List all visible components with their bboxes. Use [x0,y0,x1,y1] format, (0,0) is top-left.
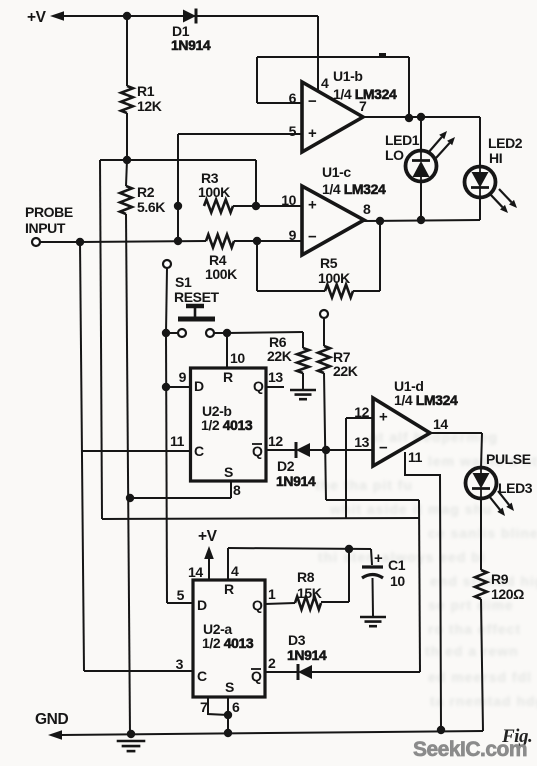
svg-text:13: 13 [268,369,283,385]
wire R5 left lead [257,290,325,292]
svg-text:22K: 22K [267,348,292,364]
wire probe to R4 [80,241,206,242]
svg-text:11: 11 [408,449,423,465]
wire U1-d pin12 lead [346,417,373,419]
wire divider long left drop [100,160,102,519]
node LED1 top junction [417,113,425,121]
node pin9 junction [162,383,170,391]
node R2 ground junction [127,730,135,738]
svg-text:C1: C1 [388,557,406,573]
label D3 [287,632,327,663]
svg-text:+: + [308,125,317,142]
node C1 top junction [345,545,353,553]
svg-text:12: 12 [268,433,283,449]
svg-text:U1-b: U1-b [333,68,363,84]
label U1-c pins [281,192,371,243]
svg-text:R: R [223,369,233,385]
label U1-c [322,164,386,197]
svg-text:th ed a rewn: th ed a rewn [425,643,519,659]
svg-text:1N914: 1N914 [276,473,316,489]
svg-text:9: 9 [289,227,297,243]
svg-text:R9: R9 [491,571,509,587]
svg-text:8: 8 [233,482,241,498]
LED LED1 [406,151,437,182]
svg-text:RESET: RESET [174,289,220,305]
svg-text:+V: +V [27,9,47,26]
label pin6 [232,699,240,715]
LED1 light arrows [428,131,455,158]
label D1 [171,23,211,53]
wire C1 bottom lead [372,578,375,616]
svg-text:D: D [194,378,204,394]
svg-text:S: S [225,679,234,695]
wire +V rail [63,15,318,17]
wire ground rail [61,731,483,735]
+V supply label [27,9,47,26]
svg-text:1/2 4013: 1/2 4013 [201,417,253,433]
wire U1-b pin4 supply drop [317,16,319,92]
svg-text:R2: R2 [137,184,155,200]
svg-text:LED1: LED1 [385,132,420,148]
label R3 [198,170,230,200]
resistor R3 [204,200,233,213]
wire U1-b feedback top [257,56,409,58]
svg-text:Q: Q [253,378,264,394]
svg-text:R: R [224,581,234,597]
label R5 [318,255,350,286]
svg-text:−: − [308,93,317,110]
node U2-a ground junction [224,729,232,737]
svg-text:9: 9 [179,369,187,385]
faint scan bleed-through (decorative) [315,429,537,709]
svg-text:Q: Q [252,443,263,459]
svg-text:ed meersd fdl: ed meersd fdl [428,669,532,685]
svg-text:100K: 100K [205,266,237,282]
svg-text:15K: 15K [297,585,322,601]
wire R5 left drop [256,241,258,291]
svg-text:10: 10 [281,192,296,208]
wire S1 right contact lead [214,332,227,334]
wire U2-b pin10 R [226,333,228,368]
wire R7 top lead [323,318,325,346]
svg-text:4: 4 [321,75,329,91]
wire U2-a pin6 [227,697,229,733]
terminal S1 top [163,260,171,268]
terminal probe input [32,238,40,246]
IC U2-a box [193,580,265,697]
wire U2-b pin13 stub [266,386,284,388]
wire R8 right lead [321,601,349,603]
wire S1 net down to U2-a pin5 [166,333,167,603]
label pin4 [231,563,239,579]
label pin2 [268,655,276,671]
node probe junction [76,238,84,246]
wire U1-b output [363,116,480,118]
+V rail arrowhead [50,11,64,21]
LED LED2 [465,167,496,198]
label PROBE INPUT [25,204,73,236]
wire R1 top lead [126,16,128,86]
wire S1 to R6 [227,332,303,333]
ground main symbol [117,741,146,751]
label U2-a name [202,621,254,651]
wire U2-b pin12 Qbar lead [266,449,296,451]
svg-text:14: 14 [433,416,448,432]
wire LED1 top lead [420,117,422,150]
wire D3 to U-turn wire [312,671,420,673]
label +V U2-a [198,528,218,545]
wire LED1 bottom lead [420,182,422,220]
label LED1 LO [385,132,420,163]
wire U2-a pin5 D [168,602,193,604]
svg-text:LED3: LED3 [498,480,533,496]
svg-text:U1-c: U1-c [322,164,351,180]
label S1 RESET [174,274,220,305]
wire R6 top lead [302,332,304,348]
svg-text:S: S [224,464,233,480]
switch S1 button cap [186,306,204,317]
node R3 left junction [174,202,182,210]
svg-text:12K: 12K [137,98,162,114]
label U1-b [333,68,397,102]
node pin11 ground junction [437,726,445,734]
label U2-a inside [197,581,263,695]
svg-text:−: − [308,228,317,245]
svg-text:LO: LO [385,147,404,163]
wire long horizontal to U1-d [102,518,419,519]
label pin13 [268,369,283,385]
svg-text:14: 14 [188,564,203,580]
LED3 light arrows [489,491,514,516]
terminal R7 top [320,310,328,318]
wire probe to clock inputs [80,242,84,671]
svg-text:−: − [379,440,388,457]
label C1 plus [374,550,383,567]
wire R5 to output [379,221,381,291]
wire U2-b pin11 C [82,450,190,452]
artifact tick [379,53,386,58]
wire U2-a pin2 Qbar lead [265,671,298,673]
wire divider node horizontal [100,159,256,161]
label U2-b name [201,403,253,433]
svg-text:11: 11 [170,433,185,449]
svg-text:100K: 100K [318,270,350,286]
svg-text:4: 4 [231,563,239,579]
wire U1-d pin11 [405,452,441,729]
svg-text:R5: R5 [320,255,338,271]
wire R2 bottom to ground rail [126,214,130,734]
wire R3 right to U1-c pin10 [233,205,302,207]
wire U1-d output [430,432,482,434]
svg-text:6: 6 [232,699,240,715]
wire U2-a pin7 [208,697,228,715]
wire pin12 drop [345,418,347,518]
wire LED2 bottom lead [479,198,481,220]
label GND [35,711,68,728]
wire U2-a pin4 up [227,548,229,580]
svg-text:10: 10 [230,350,245,366]
wire LED3 bottom lead [480,499,482,570]
resistor R7 [318,346,330,373]
diode D2 [296,442,310,458]
wire R1 bottom lead [126,113,128,160]
node R1-R2 junction [123,156,131,164]
wire R8 to C1 rail [348,549,350,602]
label pin12 [268,433,283,449]
ground C1 [360,617,386,626]
svg-text:7: 7 [200,699,208,715]
svg-text:PROBE: PROBE [25,204,73,220]
svg-text:SeekIC.com: SeekIC.com [413,738,527,761]
wire U2-a pin14 supply [208,558,210,580]
wire LED3 top lead [481,433,482,468]
wire R7 bottom horizontal [326,499,419,501]
wire U1-c output [364,220,480,221]
wire LED2 top drop [479,117,481,167]
svg-text:1N914: 1N914 [287,647,327,663]
node R4 left / pin5 drop junction [174,237,182,245]
wire R5 right lead [353,290,380,292]
resistor R8 [295,597,321,610]
svg-text:+: + [379,408,388,425]
diode D1 [183,9,196,24]
wire U2-b pin8 to ground wire [130,497,231,499]
node LED1 bottom junction [417,216,425,224]
wire U1-b feedback right [408,57,410,118]
svg-text:R1: R1 [137,83,155,99]
terminal S1 left contact [178,329,186,337]
label pin8 [233,482,241,498]
switch S1 actuator bar [178,317,215,322]
svg-text:ro tha effect: ro tha effect [428,621,521,637]
svg-text:D3: D3 [288,632,306,648]
svg-text:100K: 100K [198,184,230,200]
node S1 right junction [223,329,231,337]
label pin5 [177,587,185,603]
svg-text:22K: 22K [333,363,358,379]
node D2 junction [322,446,330,454]
op-amp U1-b [302,82,363,152]
svg-text:3: 3 [176,656,184,672]
label pin9 [179,369,187,385]
wire U2-a pin1 Q lead [265,603,295,604]
resistor R5 [325,285,353,298]
svg-text:5: 5 [289,123,297,139]
svg-text:1/4 LM324: 1/4 LM324 [333,86,397,102]
label U1-b pins [289,75,367,139]
svg-text:2: 2 [268,655,276,671]
wire C1 top lead [371,549,372,565]
wire R7 bottom lead [324,373,326,500]
resistor R1 [121,86,133,113]
svg-text:Q: Q [252,597,263,613]
+V arrow U2-a [204,546,214,559]
label pin11 [170,433,185,449]
wire U2-a pin5 lead [167,602,193,604]
label R7 [333,349,358,379]
caption Fig [501,726,532,747]
svg-text:1/2 4013: 1/2 4013 [202,635,254,651]
node pin7-6 junction [224,711,232,719]
svg-text:1N914: 1N914 [171,37,211,53]
svg-text:PULSE: PULSE [486,451,531,467]
svg-text:1/4 LM324: 1/4 LM324 [322,181,386,197]
svg-text:1: 1 [268,586,276,602]
svg-text:C: C [197,668,207,684]
diode D3 [298,664,312,680]
watermark SeekIC.com [413,738,527,761]
resistor R9 [475,570,487,599]
label pin7 [200,699,208,715]
wire R4 to U1-c pin9 [234,240,302,242]
node S1 left junction [162,329,170,337]
label R8 [297,569,322,601]
label R1 [137,83,162,114]
svg-text:120Ω: 120Ω [491,586,524,602]
ground R6 [290,390,316,399]
svg-text:1/4 LM324: 1/4 LM324 [394,392,458,408]
svg-text:HI: HI [489,150,502,166]
label U2-b inside [194,369,264,480]
svg-text:+V: +V [198,528,218,545]
wire U1-b pin6 lead [257,102,302,104]
svg-text:S1: S1 [175,274,192,290]
svg-text:6: 6 [289,90,297,106]
svg-text:Q: Q [251,668,262,684]
node U1-c output junction [376,217,384,225]
node feedback-output junction [405,114,413,122]
svg-text:+: + [308,197,317,214]
label LED3 [498,480,533,496]
wire S1 top drop [166,268,167,333]
capacitor C1 [362,567,383,578]
resistor R6 [297,348,309,373]
node R5 feedback junction [253,237,261,245]
label D2 [276,458,316,489]
node +V / R1 junction [123,12,131,20]
wire U2-b pin9 D [166,386,190,388]
svg-text:10: 10 [390,573,405,589]
label pin3 [176,656,184,672]
wire U1-b pin5 lead [178,133,302,135]
op-amp U1-d [373,398,430,466]
label PULSE [486,451,531,467]
svg-text:ce sanlis bline: ce sanlis bline [428,525,537,541]
svg-text:whit aside it mag shu: whit aside it mag shu [329,501,493,517]
label R9 [491,571,524,602]
wire divider to R3 right drop [255,160,257,206]
label C1 [388,557,406,589]
terminal S1 right contact [206,329,214,337]
wire pin5 drop to R3 left [177,134,179,241]
svg-text:8: 8 [363,201,371,217]
svg-text:D2: D2 [277,458,295,474]
GND rail arrowhead [48,730,62,740]
svg-text:C: C [194,443,204,459]
label LED2 HI [488,135,523,166]
wire U1-b feedback left [256,57,258,103]
wire R6 bottom lead [302,373,304,389]
resistor R2 [120,186,132,214]
label U1-d [394,378,458,408]
node R3 right junction [252,202,260,210]
svg-text:D: D [197,597,207,613]
label R4 [205,252,237,282]
svg-text:13: 13 [354,434,369,450]
wire S1 left contact lead [166,332,178,334]
op-amp U1-c [302,186,364,255]
svg-text:5: 5 [177,587,185,603]
label pin14 [188,564,203,580]
svg-text:5.6K: 5.6K [137,199,165,215]
wire D2 to U1-d pin13 [310,449,373,451]
wire probe lead [40,241,80,243]
label U1-d pins [354,404,448,465]
wire U2-a pin3 C [84,670,193,672]
label R2 [137,184,165,215]
resistor R4 [206,235,234,248]
LED LED3 [466,468,497,499]
LED2 light arrows [490,189,517,213]
svg-text:R8: R8 [297,569,315,585]
svg-text:GND: GND [35,711,68,728]
node pin8 junction [126,494,134,502]
label pin1 [268,586,276,602]
label pin10 [230,350,245,366]
wire pin4 horizontal [228,548,371,549]
wire U2-b pin8 S drop [230,481,232,498]
wire R9 bottom lead [481,599,483,731]
label R6 [267,334,292,364]
svg-text:LED2: LED2 [488,135,523,151]
IC U2-b box [191,368,267,481]
wire U-turn vertical [419,500,420,672]
svg-text:+: + [374,550,383,567]
svg-text:the tha pit fu: the tha pit fu [315,477,413,493]
wire R2 top lead [126,160,127,186]
svg-text:INPUT: INPUT [25,220,66,236]
